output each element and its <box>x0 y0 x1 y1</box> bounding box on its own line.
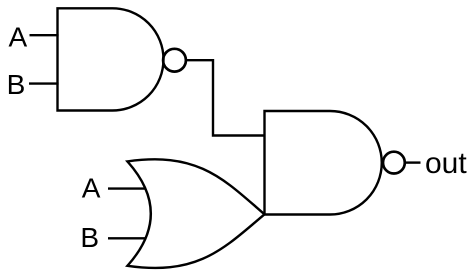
NAND gate U3 body <box>265 111 382 215</box>
wire U1 output to U3 input <box>187 60 265 135</box>
svg-text:B: B <box>80 222 99 253</box>
OR gate U2 body <box>127 159 264 268</box>
wire U3 output to out <box>406 161 421 163</box>
svg-text:A: A <box>9 21 28 52</box>
NAND gate U1 body <box>58 8 164 110</box>
svg-text:A: A <box>82 172 101 203</box>
wire B to OR U2 <box>108 237 146 239</box>
wire B to NAND U1 <box>29 82 59 84</box>
wire A to OR U2 <box>108 187 146 189</box>
NAND gate U1 inversion bubble <box>163 49 186 72</box>
svg-text:out: out <box>425 147 467 180</box>
NAND gate U3 inversion bubble <box>383 152 405 174</box>
wire A to NAND U1 <box>30 34 59 36</box>
svg-text:B: B <box>7 69 26 100</box>
